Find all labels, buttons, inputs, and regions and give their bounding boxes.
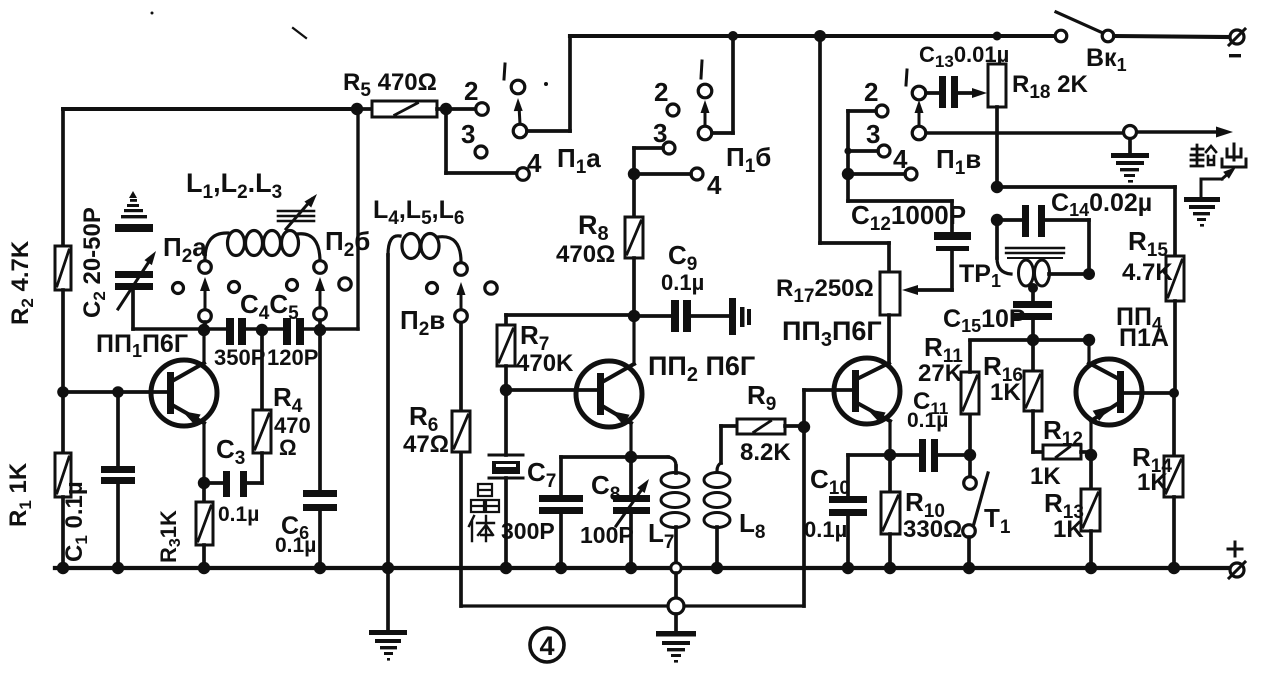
wire R18 down [995, 107, 999, 187]
capacitor C2 top plate [115, 224, 153, 232]
jack T1 contact bottom [963, 525, 976, 538]
switch П1а arrow [514, 98, 523, 124]
resistor R3 [196, 483, 213, 568]
wire R17 bottom collector [887, 315, 891, 363]
wire base ПП1 [63, 390, 167, 394]
label C3 [216, 434, 245, 469]
bus node T1 [963, 562, 975, 574]
label C11 [913, 388, 948, 418]
switch П2в contact 1 [455, 263, 468, 276]
label plus [1228, 542, 1242, 556]
label minus [1229, 54, 1241, 57]
switch П2 unused contacts [173, 278, 352, 294]
resistor R4 [253, 410, 271, 453]
label L8 [739, 508, 765, 543]
wire C12 down [848, 174, 952, 232]
wire П1а wiper to top [527, 36, 570, 131]
label ПП1 П6Г [96, 330, 188, 361]
wire node to contact4 [634, 172, 691, 176]
wire T1 to bus [967, 537, 971, 568]
tuning arrow L1-L3 [286, 191, 320, 229]
switch П1б arrow [701, 100, 710, 126]
svg-text:4: 4 [539, 631, 554, 661]
node base ПП1 left [57, 386, 69, 398]
svg-text:350P: 350P [214, 345, 265, 370]
transistor ПП2 collector [604, 316, 634, 381]
node R9 base [798, 421, 810, 433]
label ПП3 П6Г [782, 316, 882, 351]
label П1а 2 [464, 76, 478, 106]
switch П1а contact 1 [511, 80, 525, 94]
node R7 C9 collector [628, 310, 640, 322]
wire C7 vertical [559, 457, 563, 495]
switch П2а contact 1 [199, 261, 212, 274]
switch П2а wiper contact [199, 310, 212, 323]
bus node R1 [57, 562, 69, 574]
crossing circle L7 bus [671, 563, 681, 573]
wire R8 lower [632, 258, 636, 316]
wire C12 to R17 arrow [902, 251, 952, 295]
node ПП4 collector rail [1083, 334, 1095, 346]
wire C7 lower [559, 514, 563, 568]
capacitor C15 [1013, 301, 1052, 320]
bus node R3 [198, 562, 210, 574]
jack T1 lever [973, 473, 988, 527]
switch Bk1 contact left [1055, 30, 1067, 42]
wire C2 to tank bottom [131, 290, 135, 329]
label crystal 体 [469, 516, 494, 541]
wire top rail right [1114, 36, 1230, 37]
label R18 2K [1012, 71, 1089, 103]
capacitor C2 bottom plates [115, 271, 153, 290]
label П1а 3 [461, 119, 475, 149]
svg-text:0.1µ: 0.1µ [804, 517, 847, 542]
wire crystal lower [504, 478, 508, 568]
wire R6 line [459, 452, 463, 606]
switch П1а contact 4 [517, 168, 530, 181]
capacitor C12 [934, 232, 971, 251]
switch П2а arrow [200, 277, 210, 309]
svg-text:470K: 470K [516, 350, 574, 377]
resistor R1 [55, 453, 71, 497]
label R14 [1132, 442, 1172, 477]
crystal XT [489, 455, 523, 478]
resistor R15 [1166, 256, 1184, 301]
ground mid [656, 631, 696, 663]
svg-text:C2 20-50P: C2 20-50P [79, 207, 109, 318]
label П1в 3 [866, 119, 880, 149]
terminal output circle [1124, 126, 1137, 139]
wire П2б wiper to bottom [318, 320, 322, 329]
wire rail to R15 [997, 187, 1175, 256]
capacitor C8 [613, 495, 650, 514]
label R15 [1128, 226, 1168, 261]
transformer TP1 core [1006, 248, 1064, 258]
transistor ПП3 body [834, 358, 900, 424]
wire C1 upper [116, 392, 120, 466]
wire emitter to L7 [631, 457, 676, 466]
output arrow 2 [1201, 164, 1239, 199]
capacitor C2 variable arrow [118, 248, 160, 309]
wire L4 left down [386, 255, 390, 568]
switch П2б contact 1 [314, 261, 327, 274]
label ПП4 [1116, 303, 1162, 334]
wire R4 top [260, 329, 264, 410]
label C11 value [907, 409, 948, 432]
svg-text:330Ω: 330Ω [903, 516, 962, 543]
node emitter ПП3 [884, 449, 896, 461]
inductor L7 [661, 466, 689, 562]
node rail R15 [991, 181, 1003, 193]
label L1,L2,L3 [186, 168, 282, 203]
antenna symbol [121, 191, 147, 218]
switch П1а contact 2 [476, 103, 489, 116]
label C10 value [804, 517, 847, 542]
node emitter ПП2 [625, 451, 637, 463]
label R13 value [1053, 516, 1084, 543]
node R5 right [440, 103, 452, 115]
transistor ПП1 body [151, 360, 217, 426]
svg-text:2: 2 [464, 76, 478, 106]
resistor R2 [55, 246, 71, 290]
switch П2в wiper [455, 310, 468, 323]
svg-text:1K: 1K [1030, 463, 1061, 490]
transistor ПП2 base bar [597, 373, 604, 415]
label T1 [984, 503, 1011, 538]
wire C15 lower [1031, 320, 1035, 340]
capacitor C1 [101, 466, 135, 484]
wire tank bottom 3 [304, 327, 358, 330]
transistor ПП2 emitter [604, 406, 631, 457]
wire C14 right down [1087, 220, 1091, 274]
wire c3 link [848, 149, 878, 153]
bus node R10 [884, 562, 896, 574]
svg-text:4: 4 [707, 170, 722, 200]
svg-text:0.1µ: 0.1µ [275, 534, 316, 557]
label R6 value [403, 431, 449, 458]
node R5 left [351, 103, 363, 115]
wire C10 vertical [846, 455, 850, 496]
wire R8 upper [632, 174, 636, 217]
bus node R13 [1085, 562, 1097, 574]
wire crystal upper [504, 390, 508, 455]
wire tank bottom 1 [133, 327, 226, 330]
label R17 250 [776, 275, 874, 307]
label ПП2 П6Г [648, 351, 755, 386]
switch П2в arrow [457, 282, 466, 309]
transistor ПП4 body [1076, 359, 1142, 425]
transistor ПП3 base bar [852, 370, 859, 412]
bus node C1 [112, 562, 124, 574]
label L7 [648, 518, 674, 553]
switch П1б contact 2 [667, 104, 679, 116]
transistor ПП4 collector [1089, 340, 1117, 378]
bus node C7 [555, 562, 567, 574]
inductor L8 [704, 473, 730, 569]
node R8 top [628, 168, 640, 180]
label Bk1 [1086, 44, 1127, 75]
label П1а 1 tick [504, 64, 505, 79]
transistor ПП1 base bar [167, 372, 174, 414]
node ПП3 rail [814, 30, 826, 42]
wire П1а down [446, 109, 516, 173]
capacitor C5 [283, 318, 304, 345]
label П1в 1 tick [906, 70, 907, 85]
label R14 value [1137, 469, 1168, 496]
svg-text:1K: 1K [1137, 469, 1168, 496]
wire TP1 left [997, 220, 1011, 274]
wire C6 upper [318, 329, 322, 490]
svg-text:4: 4 [893, 144, 908, 174]
output ground 1 [1111, 153, 1149, 183]
wire R15 bottom [1173, 301, 1177, 393]
switch П2б arrow [315, 277, 325, 308]
wire R7 bottom [504, 366, 508, 390]
wire R9 to L8 [717, 426, 721, 471]
wire П1б wiper to top [712, 36, 733, 133]
node П2а-collector [198, 324, 210, 336]
bus node L8 [711, 562, 723, 574]
switch Bk1 lever [1056, 12, 1103, 33]
core lines L1-L3 [278, 211, 314, 221]
resistor R16 [1024, 340, 1042, 452]
wire left vertical mid [61, 290, 65, 453]
switch П1в contact 2 [876, 105, 888, 117]
switch П1б wiper [698, 126, 712, 140]
label C2 20-50P [79, 207, 109, 318]
label П2а [163, 232, 207, 267]
resistor R5 [357, 101, 446, 117]
wire base ПП2 [506, 388, 597, 392]
wire ПП3 rail down [820, 36, 889, 243]
transistor ПП3 emitter [859, 404, 890, 455]
label R15 value [1122, 259, 1173, 286]
label R12 [1043, 415, 1083, 450]
node П1в c3 [844, 147, 851, 154]
label R16 [983, 351, 1023, 386]
label П2в [400, 305, 445, 340]
transistor ПП4 emitter [1091, 401, 1117, 455]
capacitor C3 [204, 471, 262, 497]
label R7 [520, 320, 549, 355]
label R13 [1044, 488, 1084, 523]
svg-text:ПП3П6Г: ПП3П6Г [782, 316, 882, 351]
label C14 0.02u [1051, 189, 1152, 220]
label R9 value [740, 439, 791, 466]
resistor R8 [625, 217, 643, 258]
svg-text:3: 3 [866, 119, 880, 149]
page mark 4 [530, 628, 564, 662]
label R1 1K [5, 462, 35, 527]
node П1б top [728, 31, 738, 41]
label C8 value [580, 522, 634, 548]
switch П1в arrow [915, 100, 924, 126]
resistor R11 [961, 341, 979, 455]
svg-text:0.1µ: 0.1µ [661, 270, 704, 295]
switch П1в contact 1 [912, 86, 926, 100]
svg-text:Ω: Ω [279, 435, 297, 460]
switch П1в contact 4 [905, 168, 917, 180]
node C4-C5 R4 [256, 324, 268, 336]
capacitor C6 [303, 490, 337, 511]
resistor R9 [721, 419, 804, 434]
label C6 value [275, 534, 316, 557]
ground left stem [386, 568, 390, 632]
label R11 value [918, 360, 963, 387]
capacitor C8 arrow [616, 476, 653, 526]
label R8 [578, 210, 609, 245]
connector symbol [729, 298, 751, 335]
svg-text:1K: 1K [1053, 516, 1084, 543]
svg-text:C121000P: C121000P [851, 200, 966, 235]
svg-text:ПП2 П6Г: ПП2 П6Г [648, 351, 755, 386]
label П1А [1119, 324, 1169, 352]
label П1б 4 [707, 170, 722, 200]
node emitter ПП1 C3 [198, 477, 210, 489]
label R4 value [274, 413, 311, 460]
inductor L1-L3 winding [205, 231, 320, 263]
wire C6 lower [318, 511, 322, 568]
wire base ПП4 [1124, 391, 1171, 395]
svg-text:27K: 27K [918, 360, 963, 387]
label П2б [325, 226, 370, 261]
wire left vertical upper [61, 109, 65, 246]
svg-text:3: 3 [653, 118, 667, 148]
switch Bk1 contact right [1102, 30, 1114, 42]
svg-text:470Ω: 470Ω [556, 241, 615, 268]
wire tank bottom 2 [246, 327, 283, 330]
capacitor C10 [829, 496, 867, 516]
label R10 value [903, 516, 962, 543]
svg-text:0.1µ: 0.1µ [218, 503, 259, 526]
switch П1б contact 4 [691, 168, 703, 180]
terminal circle ground mid [668, 598, 684, 614]
label R4 [273, 382, 303, 417]
node R7 base crystal [500, 384, 512, 396]
label C9 [668, 240, 697, 275]
svg-text:100P: 100P [580, 522, 634, 548]
wire tap to C15 [1031, 288, 1035, 301]
wire to П1а contact2 [446, 107, 475, 111]
label C8 [591, 470, 620, 505]
label R10 [905, 487, 945, 522]
wire top-left rail [63, 107, 357, 111]
label C3 value [218, 503, 259, 526]
svg-text:R1 1K: R1 1K [5, 462, 35, 527]
label C10 [810, 464, 850, 499]
capacitor C4 [226, 318, 246, 345]
node C15 R16 [1027, 334, 1039, 346]
svg-text:R2 4.7K: R2 4.7K [7, 240, 37, 325]
svg-text:2: 2 [864, 77, 878, 107]
wire C9 left [634, 314, 671, 318]
bus node crystal [500, 562, 512, 574]
svg-text:R31K: R31K [156, 510, 184, 563]
node C11 R11 [964, 449, 976, 461]
output ground 1 stem [1128, 139, 1132, 155]
wire R17 top [887, 243, 891, 272]
node П1в bottom [842, 168, 854, 180]
label R6 [409, 401, 438, 436]
svg-text:L1,L2.L3: L1,L2.L3 [186, 168, 282, 203]
bus node L4 [382, 562, 394, 574]
switch П1б contact 3 [663, 142, 675, 154]
svg-text:120P: 120P [267, 345, 318, 370]
capacitor C13 [926, 76, 987, 108]
switch П1в contact 3 [878, 145, 890, 157]
svg-text:8.2K: 8.2K [740, 439, 791, 466]
label П1б 2 [654, 77, 668, 107]
ground left [369, 630, 407, 661]
wire output line [926, 131, 1124, 134]
svg-text:4.7K: 4.7K [1122, 259, 1173, 286]
wire emitter left C10 [848, 453, 890, 457]
output ground 2 [1184, 197, 1220, 227]
svg-text:3: 3 [461, 119, 475, 149]
label L4,L5,L6 [373, 196, 464, 229]
svg-text:C1510P: C1510P [943, 305, 1026, 336]
resistor R18 [988, 64, 1006, 107]
label C12 1000P [851, 200, 966, 235]
transistor ПП1 collector [174, 330, 204, 380]
switch П1б contact 1 [698, 84, 712, 98]
wire C10 lower [846, 516, 850, 568]
svg-text:2: 2 [654, 77, 668, 107]
wire C8 lower [629, 514, 633, 568]
svg-text:1K: 1K [990, 379, 1021, 406]
label П1в 2 [864, 77, 878, 107]
node emitter ПП4 [1085, 449, 1097, 461]
label C9 value [661, 270, 704, 295]
node TP1 tap [1028, 283, 1038, 293]
label R9 [747, 380, 776, 415]
node C14 left [991, 214, 1003, 226]
node R18 top [993, 32, 1002, 41]
label R7 value [516, 350, 574, 377]
transistor ПП3 collector [859, 363, 889, 378]
label П1а 4 [527, 148, 542, 178]
transistor ПП2 body [576, 361, 642, 427]
resistor R10 [881, 455, 900, 568]
label R16 value [990, 379, 1021, 406]
wire mid rail [970, 338, 1089, 342]
label R11 [924, 332, 963, 367]
switch П2в unused contacts [427, 282, 498, 294]
transistor ПП1 emitter [174, 406, 204, 483]
label R3 1K [156, 510, 184, 563]
bus node R14 [1168, 562, 1180, 574]
ground mid stem [674, 614, 678, 633]
jack T1 contact top [964, 455, 977, 489]
label C7 [527, 457, 556, 492]
label C15 10P [943, 305, 1026, 336]
svg-text:0.1µ: 0.1µ [907, 409, 948, 432]
resistor R12 [1033, 445, 1091, 459]
wire П2а wiper to bottom [203, 322, 207, 329]
wire node to c4 [848, 172, 905, 176]
capacitor C11 [890, 439, 970, 472]
wire R7 top [504, 315, 508, 325]
wire L7 below bus [674, 573, 678, 598]
label TP1 [959, 260, 1001, 291]
svg-text:47Ω: 47Ω [403, 431, 449, 458]
transistor ПП4 base bar [1117, 371, 1124, 413]
label R12 value [1030, 463, 1061, 490]
label 输出 char2 [1222, 144, 1246, 167]
label C6 [281, 512, 309, 543]
resistor R17 [880, 272, 900, 315]
label 120P [267, 345, 318, 370]
